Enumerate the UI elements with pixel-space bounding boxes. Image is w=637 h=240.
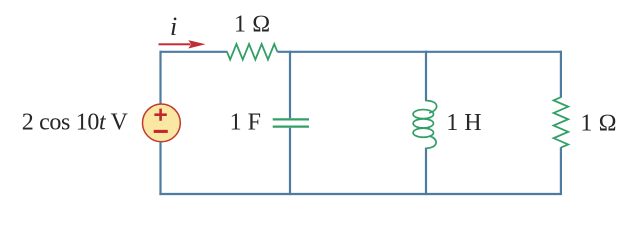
minus sign of V1	[154, 130, 168, 133]
wire: right branch lower	[560, 147, 562, 195]
plus sign of V1	[154, 109, 166, 121]
svg-text:1 Ω: 1 Ω	[580, 111, 616, 137]
wire: capacitor branch lower	[289, 128, 291, 195]
capacitor C1 value 1 F (two plates)	[273, 119, 309, 126]
wire: inductor branch lower	[425, 148, 427, 196]
resistor R2 value 1 ohm (right vertical zigzag)	[554, 97, 569, 147]
voltage source V1 (2 cos 10t V)	[143, 104, 181, 142]
svg-text:1 F: 1 F	[230, 110, 261, 136]
svg-text:1 Ω: 1 Ω	[234, 12, 270, 38]
svg-text:1 H: 1 H	[446, 110, 481, 136]
wire: capacitor branch upper	[289, 51, 291, 119]
current arrow i	[159, 40, 206, 48]
inductor L1 value 1 H (coil)	[413, 101, 437, 149]
svg-text:2 cos 10t V: 2 cos 10t V	[22, 110, 129, 136]
svg-text:i: i	[170, 12, 177, 41]
wire: left branch lower	[159, 142, 161, 195]
wire: inductor branch upper	[425, 51, 427, 101]
wire: bottom rail	[159, 193, 561, 195]
wire: top rail left of R1	[161, 51, 228, 53]
wire: left branch upper	[159, 51, 161, 104]
resistor R1 value 1 ohm (top horizontal zigzag)	[227, 44, 277, 60]
wire: right branch upper	[560, 51, 562, 98]
wire: top rail right of R1	[277, 51, 561, 53]
